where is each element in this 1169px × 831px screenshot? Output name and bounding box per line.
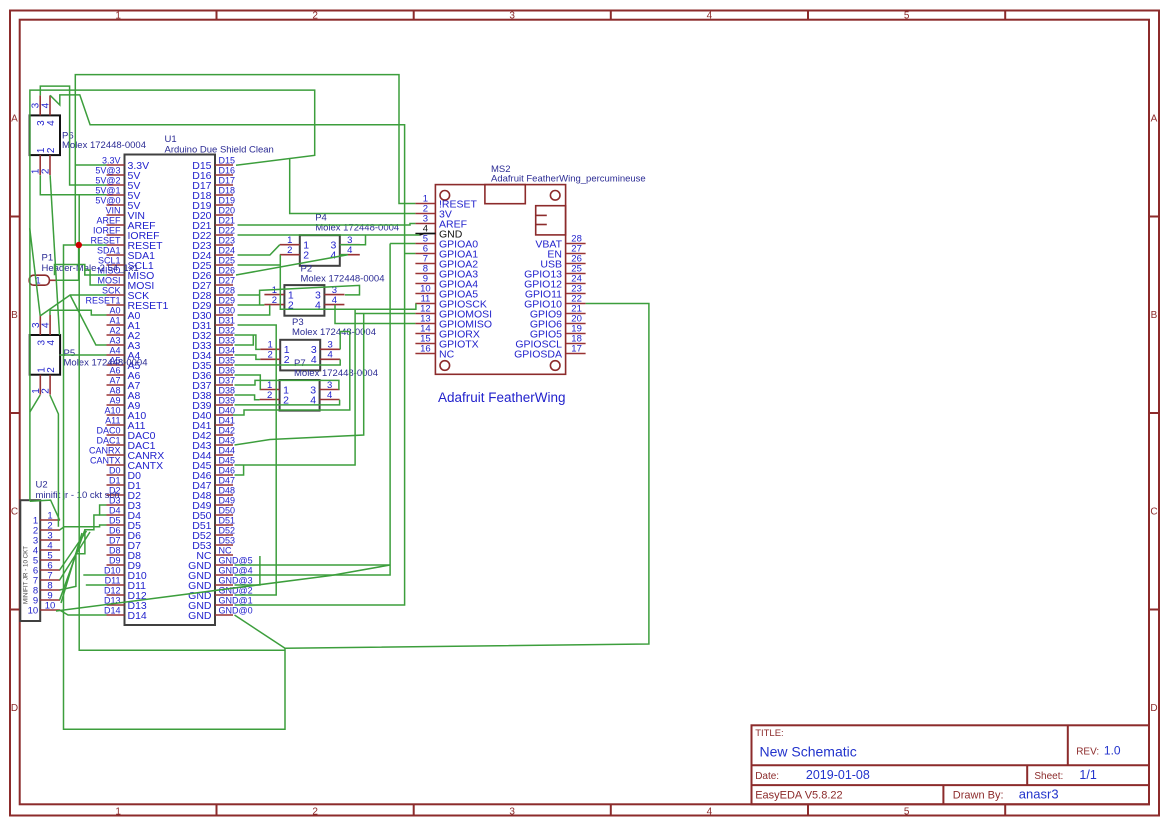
U1 pin right D44 bbox=[192, 445, 235, 461]
svg-text:4: 4 bbox=[46, 120, 57, 126]
U2 pin 8 bbox=[33, 580, 60, 596]
svg-text:A10: A10 bbox=[104, 405, 120, 415]
wire P1 riser bbox=[57, 245, 79, 280]
svg-text:SCK: SCK bbox=[102, 285, 121, 295]
wire D15 net bbox=[30, 90, 315, 501]
U1 pin left A0 bbox=[107, 305, 141, 321]
U1 pin right D20 bbox=[192, 205, 235, 221]
svg-text:D42: D42 bbox=[219, 425, 236, 435]
U1 pin left D0 bbox=[107, 465, 142, 481]
U1 pin left IOREF bbox=[93, 225, 160, 241]
wire D25 link bbox=[238, 264, 281, 266]
U1 pin left A7 bbox=[107, 375, 141, 391]
svg-text:2: 2 bbox=[46, 367, 57, 373]
svg-text:NC: NC bbox=[439, 348, 455, 360]
svg-text:D1: D1 bbox=[109, 475, 121, 485]
connector U2 minifit jr - 10 ckt sch bbox=[20, 480, 119, 622]
wire GND@3 riser bbox=[235, 556, 260, 585]
svg-text:D19: D19 bbox=[219, 195, 236, 205]
MS2 pin 7 GPIOA2 bbox=[415, 254, 478, 271]
U2 pin 1 bbox=[33, 510, 60, 526]
U2 pin 3 bbox=[33, 530, 60, 546]
svg-text:10: 10 bbox=[28, 605, 39, 616]
svg-text:A9: A9 bbox=[109, 395, 120, 405]
svg-text:DAC1: DAC1 bbox=[96, 435, 120, 445]
U1 pin left D4 bbox=[107, 505, 142, 521]
svg-text:D38: D38 bbox=[219, 385, 236, 395]
svg-text:D41: D41 bbox=[219, 415, 236, 425]
U1 pin right D15 bbox=[192, 155, 235, 171]
svg-text:C: C bbox=[11, 507, 18, 518]
svg-text:D28: D28 bbox=[219, 285, 236, 295]
U1 pin right D47 bbox=[192, 475, 235, 491]
svg-text:D39: D39 bbox=[219, 395, 236, 405]
svg-text:D17: D17 bbox=[219, 175, 236, 185]
svg-text:1: 1 bbox=[115, 10, 121, 21]
connector P7 Molex 172448-0004 bbox=[280, 358, 378, 410]
wire D37 to P7 pin3 bbox=[235, 380, 339, 389]
svg-text:2: 2 bbox=[312, 10, 318, 21]
U1 pin right D19 bbox=[192, 195, 235, 211]
U1 pin left D6 bbox=[107, 525, 142, 541]
svg-text:D32: D32 bbox=[219, 325, 236, 335]
svg-text:C: C bbox=[1150, 507, 1157, 518]
svg-text:A2: A2 bbox=[109, 325, 120, 335]
svg-text:D36: D36 bbox=[219, 365, 236, 375]
U1 pin left A10 bbox=[104, 405, 146, 421]
U1 pin right D18 bbox=[192, 185, 235, 201]
svg-text:New Schematic: New Schematic bbox=[760, 744, 857, 760]
svg-text:4: 4 bbox=[332, 295, 337, 306]
U1 pin right D46 bbox=[192, 465, 235, 481]
wire GPIOA0 link bbox=[390, 243, 415, 245]
MS2 pin 16 NC bbox=[415, 344, 454, 361]
svg-text:2: 2 bbox=[272, 295, 277, 306]
P4 pin 4 bbox=[330, 245, 359, 261]
svg-text:IOREF: IOREF bbox=[93, 225, 121, 235]
U1 pin left SDA1 bbox=[97, 245, 155, 261]
svg-text:CANTX: CANTX bbox=[90, 455, 121, 465]
MS2 pin 24 GPIO12 bbox=[524, 274, 586, 291]
U1 pin left MOSI bbox=[97, 275, 154, 291]
svg-text:GND@1: GND@1 bbox=[219, 595, 253, 605]
svg-text:D16: D16 bbox=[219, 165, 236, 175]
U1 pin right D25 bbox=[192, 255, 235, 271]
svg-text:anasr3: anasr3 bbox=[1019, 787, 1059, 802]
svg-text:D29: D29 bbox=[219, 295, 236, 305]
svg-text:D47: D47 bbox=[219, 475, 236, 485]
wire 3V riser from D15 diagonal bbox=[290, 159, 416, 214]
U1 pin left D12 bbox=[104, 585, 147, 601]
svg-text:5V@3: 5V@3 bbox=[95, 165, 120, 175]
svg-text:5V@1: 5V@1 bbox=[95, 185, 120, 195]
wire to U2 pin1 bbox=[30, 500, 60, 520]
wire D33 jog bbox=[235, 335, 254, 345]
P5 pin 2 bbox=[41, 367, 58, 395]
svg-text:D22: D22 bbox=[219, 225, 236, 235]
wire D32 to P3 pin1 bbox=[235, 335, 261, 349]
svg-text:5: 5 bbox=[904, 806, 910, 817]
wire P2 pin4 to GPIOMISO bbox=[335, 305, 415, 324]
svg-text:2019-01-08: 2019-01-08 bbox=[806, 768, 870, 782]
U1 pin left D13 bbox=[104, 595, 147, 611]
svg-text:D4: D4 bbox=[109, 505, 121, 515]
U1 pin right D21 bbox=[192, 215, 235, 231]
wire P5 pin1 down bbox=[30, 395, 40, 412]
svg-text:4: 4 bbox=[707, 806, 713, 817]
svg-text:Molex 172448-0004: Molex 172448-0004 bbox=[294, 368, 378, 379]
MS2 pin 19 GPIO5 bbox=[530, 324, 586, 341]
wire fan diagonal b bbox=[61, 533, 82, 603]
wire long diagonal to GND@5 net bbox=[56, 565, 390, 611]
wire staircase to U2 pin8 bbox=[60, 515, 100, 590]
svg-text:D49: D49 bbox=[219, 495, 236, 505]
svg-text:GND: GND bbox=[188, 610, 212, 622]
U1 pin right GND@4 bbox=[188, 565, 253, 581]
U1 pin left D14 bbox=[104, 605, 147, 621]
U1 pin right D34 bbox=[192, 345, 235, 361]
U1 pin right D52 bbox=[192, 525, 235, 541]
P6 pin 1 bbox=[31, 147, 48, 175]
wire fan diagonal a bbox=[60, 530, 85, 600]
U1 pin left RESET bbox=[90, 235, 163, 251]
wire MOSI link bbox=[85, 270, 107, 285]
svg-text:D5: D5 bbox=[109, 515, 121, 525]
svg-text:Drawn By:: Drawn By: bbox=[953, 790, 1004, 802]
P2 pin 2 bbox=[264, 295, 294, 311]
svg-text:Adafruit FeatherWing_percumine: Adafruit FeatherWing_percumineuse bbox=[491, 174, 646, 185]
wire U2 pin2 to D5 bbox=[60, 525, 107, 530]
wire P3 pin3 to D40 bbox=[233, 332, 350, 416]
U1 pin right GND@2 bbox=[188, 585, 253, 601]
U1 pin left A4 bbox=[107, 345, 141, 361]
P7 pin 1 bbox=[260, 380, 290, 396]
svg-text:RESET: RESET bbox=[90, 235, 121, 245]
U1 pin left VIN bbox=[105, 205, 145, 221]
svg-text:2: 2 bbox=[41, 388, 52, 394]
wire P6 pin1 to 5V@1 bbox=[40, 175, 106, 195]
P3 pin 4 bbox=[311, 350, 340, 366]
wire P2 pin3 loop bbox=[260, 285, 360, 305]
U1 pin right D40 bbox=[192, 405, 235, 421]
U1 pin right D22 bbox=[192, 225, 235, 241]
svg-text:Molex 172448-0004: Molex 172448-0004 bbox=[64, 358, 148, 369]
U1 pin left A6 bbox=[107, 365, 141, 381]
svg-text:5V@0: 5V@0 bbox=[95, 195, 120, 205]
svg-text:4: 4 bbox=[707, 10, 713, 21]
wire D28 to P2 pin1 bbox=[238, 294, 260, 296]
svg-text:D18: D18 bbox=[219, 185, 236, 195]
svg-text:D26: D26 bbox=[219, 265, 236, 275]
wire D22 GND rail bbox=[238, 234, 420, 236]
svg-text:D21: D21 bbox=[219, 215, 236, 225]
wire P4 pin2 to GPIOSCK line bbox=[280, 255, 416, 310]
svg-text:EasyEDA V5.8.22: EasyEDA V5.8.22 bbox=[755, 790, 842, 802]
MS2 pin 21 GPIO9 bbox=[530, 304, 586, 321]
svg-text:D43: D43 bbox=[219, 435, 236, 445]
U1 pin right GND@3 bbox=[188, 575, 253, 591]
U1 pin left 5V@3 bbox=[95, 165, 140, 181]
svg-text:D52: D52 bbox=[219, 525, 236, 535]
svg-text:D46: D46 bbox=[219, 465, 236, 475]
svg-text:D12: D12 bbox=[104, 585, 121, 595]
wire SCK to A3 bbox=[70, 295, 106, 345]
MS2 pin 11 GPIOSCK bbox=[415, 294, 486, 311]
svg-text:RESET1: RESET1 bbox=[85, 295, 120, 305]
U1 pin right D30 bbox=[192, 305, 235, 321]
svg-text:D30: D30 bbox=[219, 305, 236, 315]
P5 pin 4 bbox=[41, 315, 58, 346]
U1 pin right D28 bbox=[192, 285, 235, 301]
wire GPIOA1 stub link bbox=[405, 253, 416, 255]
connector P4 Molex 172448-0004 bbox=[300, 213, 399, 266]
svg-text:VIN: VIN bbox=[105, 205, 120, 215]
svg-text:D40: D40 bbox=[219, 405, 236, 415]
MS2 pin 27 EN bbox=[547, 244, 585, 261]
wire D10 link bbox=[83, 574, 106, 576]
MS2 pin 15 GPIOTX bbox=[415, 334, 478, 351]
wire P5 pin4 to A0 bbox=[50, 310, 107, 315]
U1 pin right D17 bbox=[192, 175, 235, 191]
U1 pin left SCK bbox=[102, 285, 149, 301]
svg-text:3.3V: 3.3V bbox=[102, 155, 121, 165]
wire D21 to AREF bbox=[238, 224, 416, 226]
wire 5V@1 loop to bottom bbox=[79, 195, 285, 651]
svg-text:D6: D6 bbox=[109, 525, 121, 535]
svg-text:D10: D10 bbox=[104, 565, 121, 575]
wire RESET loop bbox=[64, 245, 286, 729]
svg-text:minifit jr - 10 ckt sch: minifit jr - 10 ckt sch bbox=[36, 490, 120, 501]
connector P2 Molex 172448-0004 bbox=[284, 264, 384, 316]
connector P3 Molex 172448-0004 bbox=[280, 317, 376, 371]
P6 pin 3 bbox=[31, 95, 48, 126]
wire D3-D4 jog bbox=[100, 505, 107, 515]
U2 pin 7 bbox=[33, 570, 60, 586]
U1 pin left CANTX bbox=[90, 455, 163, 471]
svg-text:D: D bbox=[1150, 703, 1157, 714]
U1 pin right D32 bbox=[192, 325, 235, 341]
svg-text:D34: D34 bbox=[219, 345, 236, 355]
MS2 pin 1 !RESET bbox=[415, 194, 477, 211]
wire GPIOMOSI link bbox=[355, 313, 415, 315]
U1 pin left SCL1 bbox=[98, 255, 154, 271]
P6 pin 2 bbox=[41, 147, 58, 175]
U1 pin right D36 bbox=[192, 365, 235, 381]
MS2 pin 18 GPIOSCL bbox=[515, 334, 585, 351]
svg-text:D7: D7 bbox=[109, 535, 121, 545]
svg-text:4: 4 bbox=[347, 245, 352, 256]
wire U2 pin10 to D14 bbox=[60, 610, 107, 615]
U1 pin left DAC0 bbox=[96, 425, 155, 441]
MS2 pin 5 GPIOA0 bbox=[415, 234, 478, 251]
svg-text:D9: D9 bbox=[109, 555, 121, 565]
wire GND black segment to MS2 pin4 bbox=[420, 234, 436, 236]
wire D36 to P7 pin1 bbox=[235, 375, 261, 390]
svg-text:NC: NC bbox=[219, 545, 232, 555]
svg-text:Arduino Due Shield Clean: Arduino Due Shield Clean bbox=[165, 144, 274, 155]
P7 pin 4 bbox=[310, 390, 339, 406]
svg-text:4: 4 bbox=[41, 102, 52, 108]
wire MISO link bbox=[55, 265, 107, 276]
MS2 pin 12 GPIOMOSI bbox=[415, 304, 492, 321]
U1 pin left A3 bbox=[107, 335, 141, 351]
U1 pin left A5 bbox=[107, 355, 141, 371]
wire GPIOMOSI vertical to D45 bbox=[235, 309, 356, 465]
U1 pin left AREF bbox=[96, 215, 155, 231]
svg-text:D20: D20 bbox=[219, 205, 236, 215]
svg-text:D14: D14 bbox=[128, 610, 147, 622]
U1 pin right D50 bbox=[192, 505, 235, 521]
svg-text:D11: D11 bbox=[105, 575, 121, 585]
svg-text:Molex 172448-0004: Molex 172448-0004 bbox=[301, 274, 385, 285]
wire diagonal to P5 pin3 bbox=[30, 228, 41, 316]
svg-text:Sheet:: Sheet: bbox=[1034, 771, 1063, 782]
U1 pin right D42 bbox=[192, 425, 235, 441]
svg-text:REV:: REV: bbox=[1076, 746, 1099, 757]
svg-text:10: 10 bbox=[45, 600, 56, 611]
U1 pin left A8 bbox=[107, 385, 141, 401]
MS2 pin 28 VBAT bbox=[535, 234, 585, 251]
U1 pin left CANRX bbox=[89, 445, 164, 461]
U1 pin right D51 bbox=[192, 515, 235, 531]
U2 pin 4 bbox=[33, 540, 60, 556]
MS2 pin 2 3V bbox=[415, 204, 451, 221]
connector P1 Header-Male-2.54_1x1 bbox=[29, 253, 138, 287]
wire P4 pin3 to GND rail bbox=[340, 235, 366, 245]
U2 pin 9 bbox=[33, 590, 60, 606]
P3 pin 1 bbox=[260, 340, 290, 356]
svg-text:D: D bbox=[11, 703, 18, 714]
svg-text:D14: D14 bbox=[104, 605, 121, 615]
U1 pin right GND@0 bbox=[188, 605, 253, 621]
module MS2 Adafruit FeatherWing_percumineuse bbox=[435, 164, 645, 374]
svg-text:Adafruit FeatherWing: Adafruit FeatherWing bbox=[438, 390, 566, 405]
wire GND@4 vertical bbox=[235, 244, 391, 576]
wire fan diagonal d bbox=[60, 531, 87, 570]
wire D35 to P3 pin4 bbox=[235, 359, 341, 365]
svg-text:MOSI: MOSI bbox=[97, 275, 120, 285]
svg-text:D8: D8 bbox=[109, 545, 121, 555]
U1 pin left RESET1 bbox=[85, 295, 168, 311]
wire D31 to GND@2 bbox=[235, 325, 277, 595]
U1 pin left D11 bbox=[105, 575, 146, 591]
svg-text:A0: A0 bbox=[109, 305, 120, 315]
svg-text:A3: A3 bbox=[109, 335, 120, 345]
svg-text:CANRX: CANRX bbox=[89, 445, 121, 455]
U1 pin left DAC1 bbox=[96, 435, 155, 451]
svg-text:D53: D53 bbox=[219, 535, 236, 545]
U1 pin right D29 bbox=[192, 295, 235, 311]
connector P6 Molex 172448-0004 bbox=[30, 115, 146, 155]
wire D46 jog bbox=[235, 465, 244, 475]
junction RESET / P1 bbox=[76, 242, 82, 248]
svg-text:D51: D51 bbox=[219, 515, 236, 525]
MS2 pin 17 GPIOSDA bbox=[514, 344, 585, 361]
wire D38 to P7 pin2 bbox=[235, 395, 260, 400]
U1 pin left A11 bbox=[105, 415, 145, 431]
MS2 pin 4 GND bbox=[415, 224, 462, 241]
U2 pin 10 bbox=[28, 600, 60, 616]
U1 pin right D37 bbox=[192, 375, 235, 391]
svg-text:3: 3 bbox=[509, 10, 515, 21]
wire P6 pin3 to 5V@2 bbox=[40, 86, 106, 185]
svg-text:GND@4: GND@4 bbox=[219, 565, 253, 575]
svg-text:1: 1 bbox=[115, 806, 121, 817]
svg-text:D15: D15 bbox=[219, 155, 236, 165]
P5 pin 3 bbox=[31, 315, 48, 346]
U1 pin left D8 bbox=[107, 545, 142, 561]
U1 pin right D48 bbox=[192, 485, 235, 501]
svg-text:5V@2: 5V@2 bbox=[95, 175, 120, 185]
wire P6 pin2 diagonal to P5 bbox=[50, 175, 59, 335]
U1 pin right GND@5 bbox=[188, 555, 253, 571]
svg-text:2: 2 bbox=[46, 147, 57, 153]
U1 pin left D9 bbox=[107, 555, 142, 571]
svg-text:GPIOSDA: GPIOSDA bbox=[514, 348, 562, 360]
svg-text:A1: A1 bbox=[109, 315, 120, 325]
P5 pin 1 bbox=[31, 367, 48, 395]
U1 pin right D39 bbox=[192, 395, 235, 411]
svg-text:B: B bbox=[1151, 310, 1158, 321]
svg-text:D33: D33 bbox=[219, 335, 236, 345]
svg-text:1/1: 1/1 bbox=[1079, 768, 1096, 782]
U1 pin left A1 bbox=[107, 315, 141, 331]
IC U1 Arduino Due Shield Clean bbox=[125, 134, 274, 625]
U1 pin right NC bbox=[196, 545, 233, 561]
U1 pin left A2 bbox=[107, 325, 141, 341]
P7 pin 3 bbox=[310, 380, 339, 396]
U1 pin right D53 bbox=[192, 535, 235, 551]
svg-text:AREF: AREF bbox=[96, 215, 121, 225]
svg-text:A: A bbox=[1151, 114, 1158, 125]
U1 pin right D24 bbox=[192, 245, 235, 261]
svg-text:D37: D37 bbox=[219, 375, 236, 385]
wire SCK node bbox=[40, 295, 106, 316]
MS2 pin 23 GPIO11 bbox=[525, 284, 586, 301]
svg-text:1.0: 1.0 bbox=[1104, 743, 1121, 757]
svg-text:2: 2 bbox=[267, 390, 272, 401]
svg-text:D24: D24 bbox=[219, 245, 236, 255]
U1 pin left MISO bbox=[97, 265, 154, 281]
U1 pin left D7 bbox=[107, 535, 142, 551]
U1 pin left D10 bbox=[104, 565, 147, 581]
svg-text:2: 2 bbox=[287, 245, 292, 256]
U2 pin 2 bbox=[33, 520, 60, 536]
wire P4 pin4 ext bbox=[340, 254, 348, 256]
svg-text:D48: D48 bbox=[219, 485, 236, 495]
U1 pin right D41 bbox=[192, 415, 235, 431]
U1 pin left 5V@0 bbox=[95, 195, 140, 211]
U1 pin left D1 bbox=[107, 475, 142, 491]
svg-text:D50: D50 bbox=[219, 505, 236, 515]
svg-text:D31: D31 bbox=[219, 315, 236, 325]
U1 pin right D45 bbox=[192, 455, 235, 471]
wire fan diagonal c bbox=[60, 532, 90, 580]
wire D30 jog bbox=[238, 305, 270, 315]
U1 pin right D38 bbox=[192, 385, 235, 401]
U1 pin left D2 bbox=[107, 485, 142, 501]
svg-text:4: 4 bbox=[328, 350, 333, 361]
MS2 pin 20 GPIO6 bbox=[530, 314, 586, 331]
svg-text:A7: A7 bbox=[109, 375, 120, 385]
wire GND@0 diagonal bbox=[235, 615, 286, 648]
P2 pin 3 bbox=[315, 285, 344, 301]
P3 pin 2 bbox=[260, 350, 290, 366]
U1 pin left D5 bbox=[107, 515, 142, 531]
MS2 pin 13 GPIOMISO bbox=[415, 314, 492, 331]
svg-text:5: 5 bbox=[904, 10, 910, 21]
U1 pin left D3 bbox=[107, 495, 142, 511]
